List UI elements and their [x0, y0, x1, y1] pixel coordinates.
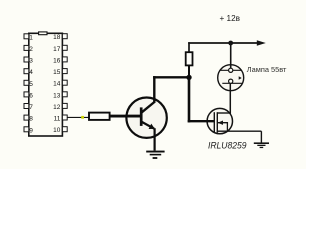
svg-text:10: 10: [53, 127, 61, 134]
MOSFET VT2 body arrow head: [218, 121, 223, 125]
MOSFET VT2 drain stub: [217, 112, 230, 114]
IC pin 6 lead: [24, 92, 29, 97]
IC pin 3 lead: [24, 57, 29, 62]
MOSFET VT2 source wire: [217, 130, 261, 132]
wire to VT2 gate: [188, 120, 215, 122]
IC U1 orientation notch: [39, 32, 47, 35]
wire R2 to node: [188, 65, 190, 77]
lamp lower electrode line: [222, 82, 243, 84]
svg-text:11: 11: [54, 116, 61, 123]
ground GND1 bar1: [146, 151, 164, 153]
svg-text:15: 15: [53, 69, 61, 76]
ground GND2 bar3: [260, 147, 264, 148]
IC pin 10 lead: [62, 127, 67, 132]
resistor R1 (base resistor): [89, 113, 110, 120]
lamp HL1 circle: [218, 65, 244, 91]
IC U1 body: [29, 33, 63, 136]
emitter wire down: [154, 128, 156, 150]
lamp lower contact circle: [229, 79, 233, 83]
wire pin11 to R1: [67, 116, 89, 118]
transistor VT1 emitter diagonal: [142, 122, 154, 129]
svg-text:2: 2: [29, 46, 33, 53]
svg-text:8: 8: [29, 116, 33, 123]
svg-text:7: 7: [29, 104, 33, 111]
lamp tick mark: [239, 76, 242, 79]
transistor VT1 collector diagonal: [142, 102, 155, 112]
svg-text:6: 6: [29, 92, 33, 99]
transistor VT1 circle: [126, 98, 166, 138]
collector wire to node (thick elbow): [153, 76, 189, 78]
wire rail down to lamp: [230, 43, 232, 69]
IC pin 15 lead: [62, 69, 67, 74]
MOSFET VT2 gate bar: [213, 112, 215, 133]
IC pin 4 lead: [24, 69, 29, 74]
IC pin 14 lead: [62, 80, 67, 85]
svg-text:5: 5: [29, 81, 33, 88]
MOSFET VT2 channel bar: [216, 112, 218, 133]
svg-text:14: 14: [53, 81, 61, 88]
svg-text:1: 1: [29, 34, 33, 41]
IC pin 12 lead: [62, 103, 67, 108]
svg-text:IRLU8259: IRLU8259: [208, 139, 247, 150]
ground GND2 bar1: [254, 142, 269, 144]
IC pin 8 lead: [24, 115, 29, 120]
junction node dot A: [186, 75, 191, 80]
MOSFET VT2 circle: [207, 108, 232, 133]
svg-text:16: 16: [53, 57, 61, 64]
IC pin 5 lead: [24, 80, 29, 85]
IC pin 11 lead: [62, 115, 67, 120]
ground GND2 bar2: [257, 145, 265, 146]
node highlight (yellow) on pin11 wire: [81, 116, 84, 119]
svg-text:Лампа 55вт: Лампа 55вт: [247, 65, 287, 74]
svg-text:4: 4: [29, 69, 33, 76]
IC pin 7 lead: [24, 104, 29, 109]
wire lamp to VT2 drain: [229, 83, 231, 113]
svg-text:3: 3: [29, 58, 33, 65]
transistor VT1 emitter arrow: [149, 124, 155, 129]
IC pin 9 lead: [24, 127, 29, 132]
resistor R2 (pull-up): [186, 52, 193, 65]
collector wire up: [153, 76, 155, 103]
IC pin 16 lead: [62, 57, 67, 62]
wire R1 to VT1 base (thick): [110, 115, 142, 118]
IC pin 1 lead: [24, 34, 29, 39]
lamp upper electrode line: [220, 69, 242, 71]
junction node dot B on rail: [228, 41, 233, 46]
svg-text:18: 18: [53, 34, 61, 41]
wire rail corner down to R2: [188, 42, 190, 52]
lamp upper contact circle: [229, 68, 233, 72]
IC pin 13 lead: [62, 92, 67, 97]
IC pin 17 lead: [62, 45, 67, 50]
+12v rail wire: [188, 42, 258, 44]
svg-text:12: 12: [53, 104, 61, 111]
svg-text:9: 9: [29, 127, 33, 134]
ground GND1 bar3: [153, 157, 158, 159]
wire node down: [188, 77, 191, 122]
IC pin 18 lead: [62, 34, 67, 39]
svg-text:17: 17: [53, 46, 61, 53]
MOSFET VT2 body arrow line: [218, 123, 228, 132]
wire source down to ground: [260, 131, 262, 143]
ground GND1 bar2: [150, 154, 162, 156]
transistor VT1 base bar: [140, 107, 143, 126]
svg-text:+ 12в: + 12в: [220, 14, 241, 23]
IC pin 2 lead: [24, 45, 29, 50]
svg-text:13: 13: [53, 92, 61, 99]
+12v terminal arrow: [257, 40, 266, 45]
